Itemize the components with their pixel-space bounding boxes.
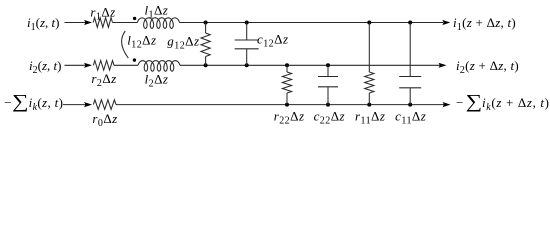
wire: g12 bottom lead <box>205 57 207 66</box>
wire: c11 top lead (crosses conductor 2) <box>409 23 411 77</box>
wire: g12 top lead <box>205 23 207 34</box>
polarity dot of l1 <box>133 17 136 20</box>
wire: conductor 2 left lead <box>65 64 91 66</box>
wire: conductor 1 right segment <box>180 22 444 24</box>
wire: c22 bottom lead <box>327 87 329 105</box>
wire: r22 bottom lead <box>286 93 288 105</box>
svg-text:∑: ∑ <box>466 90 483 112</box>
node: wire2-c12 junction <box>245 63 249 67</box>
arrow: current output bottom right <box>443 102 451 107</box>
wire: conductor 1 left lead <box>65 22 91 24</box>
svg-text:∑: ∑ <box>12 90 29 112</box>
svg-text:−: − <box>456 95 463 110</box>
wire: r11 top lead (crosses conductor 2) <box>368 23 370 73</box>
conductance g12 (resistor) <box>201 33 210 57</box>
wire: reference conductor left lead <box>63 104 91 106</box>
node: wire3-r22 junction <box>285 103 289 107</box>
resistor r1 <box>93 18 112 28</box>
arrow: current i2(z,t) direction <box>84 63 92 68</box>
inductor l2 <box>138 61 180 72</box>
svg-text:r0Δz: r0Δz <box>92 111 117 128</box>
wire: r11 bottom lead <box>368 93 370 105</box>
label -sum ik(z,t) <box>4 90 63 113</box>
wire: c11 bottom lead <box>409 88 411 105</box>
node: wire1-r11 junction <box>367 21 371 25</box>
wire: c12 bottom lead <box>246 49 248 66</box>
node: wire3-c11 junction <box>408 103 412 107</box>
node: wire2-g12 junction <box>204 63 208 67</box>
polarity dot of l2 <box>133 58 136 61</box>
arrow: current i1(z,t) direction <box>84 20 92 25</box>
node: wire2-r22 junction <box>285 63 289 67</box>
inductor l1 <box>137 18 179 29</box>
node: wire1-g12 junction <box>204 21 208 25</box>
node: wire3-r11 junction <box>367 103 371 107</box>
resistor r22 <box>282 72 291 93</box>
arrow: current i2(z+dz,t) output <box>439 63 447 68</box>
node: wire2-c22 junction <box>326 63 330 67</box>
wire: c12 top lead <box>246 23 248 41</box>
node: wire1-c11 junction <box>408 21 412 25</box>
wire: reference conductor right segment <box>116 104 444 106</box>
svg-text:−: − <box>4 95 11 110</box>
resistor r2 <box>93 61 114 71</box>
resistor r0 <box>93 100 116 110</box>
wire: c22 top lead <box>327 65 329 76</box>
resistor r11 <box>365 72 374 93</box>
capacitor c12 <box>235 40 259 49</box>
wire: r22 top lead <box>286 65 288 72</box>
arrow: current i1(z+dz,t) output <box>442 20 450 25</box>
mutual inductance l12 coupling arc <box>122 31 129 58</box>
label -sum ik(z+dz,t) <box>456 90 550 113</box>
node: wire3-c22 junction <box>326 103 330 107</box>
wire: conductor 2 right segment <box>180 64 440 66</box>
capacitor c22 <box>318 77 338 87</box>
arrow: current -sum ik(z,t) direction <box>84 102 92 107</box>
capacitor c11 <box>399 77 421 88</box>
wire: r2 to l2 <box>114 64 138 66</box>
wire: r1 to l1 <box>113 22 138 24</box>
node: wire1-c12 junction <box>245 21 249 25</box>
